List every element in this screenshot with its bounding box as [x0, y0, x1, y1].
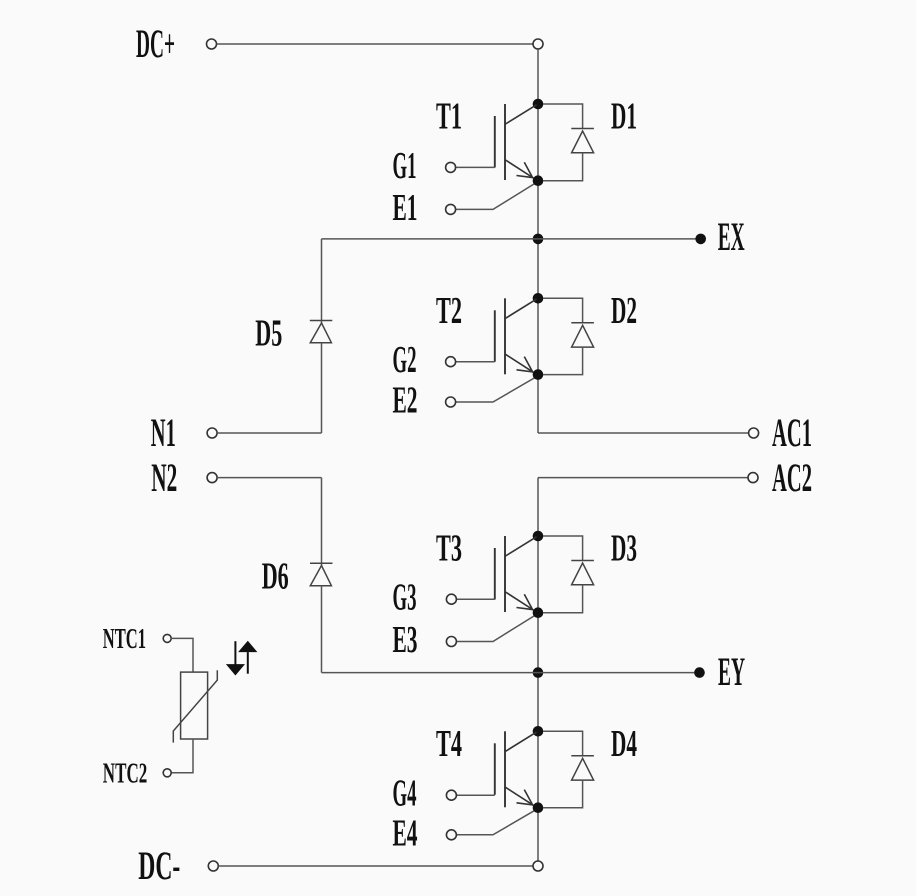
- svg-text:E2: E2: [393, 380, 418, 422]
- node T4 collector: [533, 726, 544, 737]
- node EY junction: [533, 667, 544, 678]
- node EX junction: [533, 234, 544, 245]
- terminal G4: [446, 790, 456, 800]
- diode D3: [543, 536, 594, 613]
- terminal EY: [694, 667, 705, 678]
- diode D2: [543, 298, 594, 374]
- node T3 collector: [533, 531, 544, 542]
- svg-text:D4: D4: [611, 723, 637, 765]
- node T3 emitter: [533, 607, 544, 618]
- transistor T3: [495, 536, 537, 612]
- wire N2 lead: [217, 477, 321, 479]
- transistor T4: [495, 731, 537, 807]
- svg-text:G1: G1: [393, 145, 417, 187]
- terminal DC- bus bottom: [533, 861, 543, 871]
- terminal E4: [446, 830, 456, 840]
- node T2 collector: [533, 293, 544, 304]
- wire EX horizontal: [322, 238, 697, 240]
- svg-text:E3: E3: [393, 619, 418, 661]
- thermistor temperature arrows: [226, 641, 258, 676]
- terminal N1: [207, 428, 217, 438]
- terminal G3: [446, 594, 456, 604]
- wire DC+ rail: [217, 43, 534, 45]
- terminal G2: [446, 357, 456, 367]
- svg-text:D2: D2: [611, 290, 637, 332]
- wire bus upper vertical: [537, 49, 539, 433]
- svg-text:NTC1: NTC1: [103, 623, 146, 655]
- thermistor RT body: [181, 672, 208, 739]
- terminal G1: [446, 162, 456, 172]
- svg-text:D5: D5: [255, 313, 282, 355]
- terminal DC+: [207, 39, 217, 49]
- svg-text:E4: E4: [393, 812, 418, 854]
- node T1 collector: [533, 99, 544, 110]
- svg-text:EY: EY: [718, 649, 745, 694]
- terminal EX: [695, 234, 706, 245]
- wire NTC1 lead: [171, 638, 193, 672]
- diode D5: [310, 321, 333, 343]
- svg-text:G2: G2: [393, 339, 417, 381]
- terminal DC-: [208, 861, 218, 871]
- diode D6: [310, 563, 333, 586]
- wire G4 lead: [456, 794, 494, 796]
- svg-text:D1: D1: [611, 96, 637, 138]
- svg-text:EX: EX: [718, 214, 745, 259]
- terminal N2: [207, 473, 217, 483]
- terminal E3: [446, 637, 456, 647]
- wire AC1 lead: [538, 432, 749, 434]
- wire E1 kelvin lead: [456, 183, 536, 210]
- svg-text:G4: G4: [393, 773, 417, 815]
- wire NTC2 lead: [171, 739, 193, 773]
- wire D6 branch upper: [321, 478, 323, 566]
- svg-text:T4: T4: [436, 723, 462, 765]
- svg-text:D6: D6: [262, 555, 289, 597]
- wire EY horizontal: [322, 672, 695, 674]
- svg-text:DC-: DC-: [138, 843, 180, 888]
- wire G2 lead: [456, 361, 495, 363]
- svg-text:T3: T3: [436, 528, 462, 570]
- svg-text:N1: N1: [151, 410, 176, 455]
- svg-text:D3: D3: [611, 528, 637, 570]
- terminal NTC2: [163, 769, 171, 777]
- terminal AC1: [749, 428, 759, 438]
- node T2 emitter: [533, 369, 544, 380]
- thermistor RT diagonal: [173, 670, 217, 742]
- wire N1 lead: [217, 432, 321, 434]
- svg-text:G3: G3: [393, 577, 417, 619]
- svg-text:AC2: AC2: [772, 455, 812, 500]
- node T4 emitter: [533, 802, 544, 813]
- svg-text:DC+: DC+: [136, 21, 175, 66]
- wire G3 lead: [456, 598, 494, 600]
- wire E3 kelvin lead: [456, 615, 536, 642]
- terminal DC+ bus top: [533, 39, 543, 49]
- svg-text:AC1: AC1: [772, 410, 812, 455]
- svg-text:NTC2: NTC2: [103, 757, 148, 789]
- wire G1 lead: [456, 166, 495, 168]
- terminal AC2: [748, 473, 758, 483]
- svg-text:E1: E1: [393, 187, 418, 229]
- svg-text:T2: T2: [436, 290, 462, 332]
- node T1 emitter: [533, 175, 544, 186]
- wire AC2 lead: [538, 477, 748, 479]
- wire bus lower vertical: [537, 478, 539, 861]
- wire E4 kelvin lead: [456, 810, 536, 835]
- wire D5 branch upper: [321, 239, 323, 323]
- wire D5 branch lower: [321, 343, 323, 433]
- wire DC- rail: [218, 865, 533, 867]
- svg-text:T1: T1: [436, 96, 462, 138]
- transistor T1: [495, 104, 537, 180]
- svg-text:N2: N2: [151, 455, 177, 500]
- diode D1: [543, 104, 594, 181]
- terminal E1: [446, 204, 456, 214]
- diode D4: [543, 731, 594, 807]
- wire D6 branch lower: [321, 586, 323, 673]
- transistor T2: [495, 298, 537, 374]
- wire E2 kelvin lead: [456, 377, 536, 402]
- terminal E2: [446, 397, 456, 407]
- terminal NTC1: [163, 634, 171, 642]
